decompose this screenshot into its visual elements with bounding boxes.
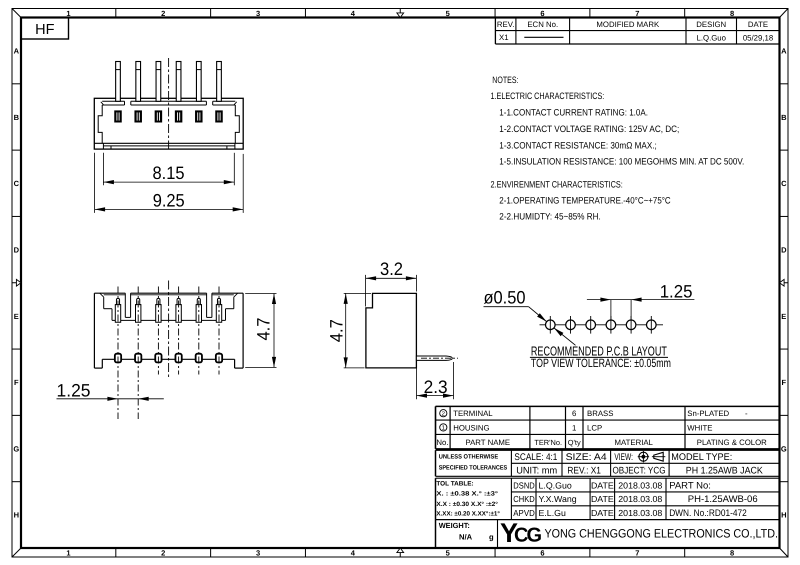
svg-text:7: 7 xyxy=(635,9,639,18)
svg-text:F: F xyxy=(14,378,19,387)
svg-text:TOP VIEW TOLERANCE: ±0.05mm: TOP VIEW TOLERANCE: ±0.05mm xyxy=(531,356,671,370)
svg-text:C: C xyxy=(781,179,787,188)
svg-text:ECN No.: ECN No. xyxy=(527,20,558,29)
svg-text:DSND: DSND xyxy=(513,480,535,490)
svg-text:B: B xyxy=(781,113,787,122)
svg-text:OBJECT: YCG: OBJECT: YCG xyxy=(613,466,666,477)
svg-text:D: D xyxy=(781,245,787,254)
svg-text:05/29,18: 05/29,18 xyxy=(743,33,773,42)
svg-text:X. : ±0.38 X.° :±3°: X. : ±0.38 X.° :±3° xyxy=(436,490,498,497)
svg-text:TERMINAL: TERMINAL xyxy=(453,409,493,418)
svg-text:DATE: DATE xyxy=(748,20,768,29)
svg-text:H: H xyxy=(781,511,786,520)
svg-text:2-1.OPERATING TEMPERATURE.-40°: 2-1.OPERATING TEMPERATURE.-40°C~+75°C xyxy=(499,195,671,205)
svg-text:6: 6 xyxy=(540,549,544,558)
svg-text:8: 8 xyxy=(730,549,734,558)
svg-text:MODIFIED MARK: MODIFIED MARK xyxy=(596,20,660,29)
svg-text:2.3: 2.3 xyxy=(424,377,448,397)
svg-text:2-2.HUMIDTY: 45~85% RH.: 2-2.HUMIDTY: 45~85% RH. xyxy=(499,212,601,222)
svg-text:5: 5 xyxy=(446,9,450,18)
svg-text:BRASS: BRASS xyxy=(587,409,613,418)
svg-text:WHITE: WHITE xyxy=(687,423,712,432)
svg-text:-: - xyxy=(745,409,748,418)
svg-text:UNLESS OTHERWISE: UNLESS OTHERWISE xyxy=(439,454,499,461)
svg-text:MATERIAL: MATERIAL xyxy=(614,438,653,447)
svg-text:APVD: APVD xyxy=(513,508,535,518)
svg-text:L.Q.Guo: L.Q.Guo xyxy=(539,480,572,490)
svg-text:WEIGHT:: WEIGHT: xyxy=(439,521,470,530)
svg-text:ø0.50: ø0.50 xyxy=(484,288,526,308)
svg-text:6: 6 xyxy=(572,409,576,418)
svg-text:5: 5 xyxy=(446,549,450,558)
svg-text:H: H xyxy=(14,511,19,520)
svg-text:DWN. No.:RD01-472: DWN. No.:RD01-472 xyxy=(669,508,747,519)
svg-text:Q'ty: Q'ty xyxy=(568,438,581,447)
svg-text:NOTES:: NOTES: xyxy=(492,75,518,85)
svg-text:G: G xyxy=(781,444,787,453)
svg-text:4.7: 4.7 xyxy=(327,319,347,342)
svg-text:1.ELECTRIC CHARACTERISTICS:: 1.ELECTRIC CHARACTERISTICS: xyxy=(491,91,605,101)
svg-text:3: 3 xyxy=(256,549,260,558)
svg-text:VIEW:: VIEW: xyxy=(614,452,633,463)
svg-text:4.7: 4.7 xyxy=(254,318,274,341)
svg-text:SCALE: 4:1: SCALE: 4:1 xyxy=(514,452,557,463)
svg-text:YONG CHENGGONG ELECTRONICS CO.: YONG CHENGGONG ELECTRONICS CO.,LTD. xyxy=(545,526,779,540)
svg-text:DATE: DATE xyxy=(591,480,614,490)
svg-text:1-2.CONTACT VOLTAGE RATING: 12: 1-2.CONTACT VOLTAGE RATING: 125V AC, DC; xyxy=(499,124,679,134)
svg-text:6: 6 xyxy=(540,9,544,18)
svg-text:F: F xyxy=(782,378,787,387)
svg-text:A: A xyxy=(14,47,20,56)
svg-text:E.L.Gu: E.L.Gu xyxy=(539,508,566,518)
svg-text:REV.: REV. xyxy=(497,20,514,29)
svg-text:CHKD: CHKD xyxy=(513,494,535,504)
svg-text:2018.03.08: 2018.03.08 xyxy=(618,494,662,504)
svg-text:LCP: LCP xyxy=(587,423,602,432)
svg-text:X.X : ±0.30 X.X° :±2°: X.X : ±0.30 X.X° :±2° xyxy=(436,501,498,508)
svg-text:8.15: 8.15 xyxy=(153,163,185,183)
svg-text:Y.X.Wang: Y.X.Wang xyxy=(539,494,577,504)
svg-text:1.25: 1.25 xyxy=(57,381,91,401)
svg-text:1.25: 1.25 xyxy=(660,281,693,301)
svg-text:REV.: X1: REV.: X1 xyxy=(567,466,601,477)
svg-text:1: 1 xyxy=(66,9,70,18)
svg-text:2018.03.08: 2018.03.08 xyxy=(618,480,662,490)
svg-text:1-5.INSULATION RESISTANCE: 100: 1-5.INSULATION RESISTANCE: 100 MEGOHMS M… xyxy=(499,157,744,167)
svg-text:7: 7 xyxy=(635,549,639,558)
svg-text:E: E xyxy=(14,312,19,321)
svg-text:MODEL TYPE:: MODEL TYPE: xyxy=(671,452,732,463)
svg-text:1: 1 xyxy=(66,549,70,558)
svg-text:DATE: DATE xyxy=(591,508,614,518)
svg-text:N/A: N/A xyxy=(459,532,473,541)
svg-text:3: 3 xyxy=(256,9,260,18)
svg-text:1-3.CONTACT RESISTANCE: 30mΩ M: 1-3.CONTACT RESISTANCE: 30mΩ MAX.; xyxy=(499,140,657,150)
svg-text:No.: No. xyxy=(436,438,448,447)
svg-text:X1: X1 xyxy=(499,33,509,42)
svg-text:CG: CG xyxy=(514,525,541,547)
svg-text:D: D xyxy=(14,245,20,254)
svg-text:TER'No.: TER'No. xyxy=(534,438,562,447)
svg-text:G: G xyxy=(13,444,19,453)
svg-text:E: E xyxy=(781,312,786,321)
svg-text:2: 2 xyxy=(161,9,165,18)
svg-text:1-1.CONTACT CURRENT RATING: 1.: 1-1.CONTACT CURRENT RATING: 1.0A. xyxy=(499,108,648,118)
svg-text:2: 2 xyxy=(161,549,165,558)
svg-text:PART NAME: PART NAME xyxy=(465,438,510,447)
svg-text:2018.03.08: 2018.03.08 xyxy=(618,508,662,518)
svg-text:PH 1.25AWB JACK: PH 1.25AWB JACK xyxy=(686,466,764,477)
svg-text:HOUSING: HOUSING xyxy=(453,423,489,432)
svg-text:A: A xyxy=(781,47,787,56)
svg-text:X.XX: ±0.20 X.XX°:±1°: X.XX: ±0.20 X.XX°:±1° xyxy=(436,511,500,518)
svg-text:SPECIFIED TOLERANCES: SPECIFIED TOLERANCES xyxy=(439,464,508,471)
svg-text:DATE: DATE xyxy=(591,494,614,504)
svg-text:UNIT: mm: UNIT: mm xyxy=(516,466,557,477)
svg-text:L.Q.Guo: L.Q.Guo xyxy=(697,33,727,42)
svg-text:SIZE: A4: SIZE: A4 xyxy=(566,452,608,463)
svg-text:B: B xyxy=(14,113,20,122)
svg-text:HF: HF xyxy=(35,22,54,38)
svg-text:TOL TABLE:: TOL TABLE: xyxy=(436,481,473,488)
svg-text:C: C xyxy=(14,179,20,188)
svg-text:PART No:: PART No: xyxy=(669,480,711,491)
svg-text:9.25: 9.25 xyxy=(153,191,185,211)
svg-text:2.ENVIRENMENT CHARACTERISTICS:: 2.ENVIRENMENT CHARACTERISTICS: xyxy=(491,180,623,190)
svg-text:DESIGN: DESIGN xyxy=(696,20,726,29)
svg-text:3.2: 3.2 xyxy=(380,259,403,279)
svg-text:g: g xyxy=(489,532,494,541)
svg-text:Sn-PLATED: Sn-PLATED xyxy=(687,409,729,418)
svg-text:PLATING & COLOR: PLATING & COLOR xyxy=(697,438,767,447)
svg-text:1: 1 xyxy=(572,423,576,432)
svg-text:PH-1.25AWB-06: PH-1.25AWB-06 xyxy=(688,494,758,505)
svg-text:8: 8 xyxy=(730,9,734,18)
